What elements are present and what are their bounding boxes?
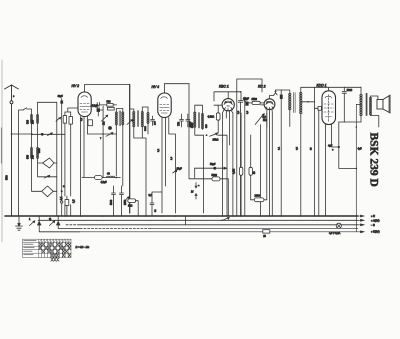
wire tap to C10 — [339, 167, 357, 169]
bus arrows — [358, 215, 364, 233]
wire R14 — [136, 201, 139, 216]
lamp LA1 — [336, 223, 341, 228]
resistor R14 — [128, 199, 136, 203]
table X marks — [39, 243, 71, 261]
svg-text:1M: 1M — [103, 122, 106, 125]
plug P3 — [38, 216, 41, 225]
wire TR1 secondary bottom — [300, 116, 302, 216]
wire R9 — [240, 113, 242, 216]
switch wiper S9 — [45, 175, 50, 178]
wire R1 down — [64, 112, 66, 196]
wire TR2 primary top — [360, 87, 362, 95]
resistor R5 — [107, 104, 113, 107]
switch S5 below bus — [30, 221, 35, 226]
svg-text:6: 6 — [13, 96, 15, 98]
interstage transformer TR1 primary — [289, 93, 291, 110]
svg-text:555: 555 — [206, 124, 208, 128]
svg-text:0,0: 0,0 — [238, 110, 240, 114]
svg-text:500: 500 — [5, 175, 9, 180]
switch S7 on bus — [223, 217, 230, 220]
svg-text:25: 25 — [263, 236, 266, 238]
jack M arrows — [195, 183, 197, 199]
svg-text:+ A(2V): + A(2V) — [371, 220, 380, 223]
node af — [116, 177, 118, 179]
wire V4 pins — [261, 105, 273, 216]
wire TR2 primary bottom — [360, 116, 362, 123]
bus A — [38, 219, 358, 221]
svg-text:500: 500 — [107, 101, 112, 104]
wire TR2 sec bottom — [371, 116, 379, 128]
svg-text:HV 4: HV 4 — [152, 85, 160, 89]
IF3 core — [199, 113, 200, 129]
wire V1 top — [85, 85, 130, 93]
capacitor C4 — [151, 116, 155, 126]
trimmer T3 — [173, 170, 177, 173]
wire diode verticals — [241, 97, 245, 216]
wire TR2 tap down — [355, 105, 357, 232]
TR1 secondary — [300, 92, 302, 114]
svg-text:5000: 5000 — [212, 174, 218, 177]
IF1 core — [119, 111, 120, 126]
terminal strip table — [23, 239, 71, 257]
wire V4 cathode to return — [266, 113, 268, 127]
wire C9 bottom row — [339, 121, 361, 123]
wire 50uF row — [195, 167, 227, 169]
svg-text:380: 380 — [26, 119, 29, 124]
svg-text:4,5µF: 4,5µF — [101, 181, 108, 184]
IF1 coil b — [122, 112, 124, 125]
resistor R17 on K line — [263, 230, 270, 233]
bus B — [80, 224, 358, 226]
capacitor C13 — [150, 197, 154, 216]
wire IF1 bottoms — [116, 127, 123, 186]
speaker LS — [377, 95, 390, 113]
wire V3 pins — [222, 110, 233, 216]
svg-text:1,0: 1,0 — [171, 156, 173, 160]
resistor R6 — [107, 107, 114, 110]
coil L1 — [30, 115, 32, 124]
svg-text:Ω = kΩ · b/n: Ω = kΩ · b/n — [76, 246, 90, 249]
capacitor C17 block — [245, 102, 248, 106]
wire R11 — [251, 199, 267, 201]
svg-text:BSK 239 D: BSK 239 D — [368, 133, 380, 187]
wire R10 — [250, 135, 252, 200]
band switch arrow W1 — [38, 158, 54, 168]
resistor R13 — [95, 176, 103, 180]
antenna A — [5, 85, 19, 216]
wire 5000 row — [189, 84, 228, 216]
scan edge artifact left — [1, 60, 3, 242]
svg-text:15µF: 15µF — [177, 169, 183, 171]
svg-text:a: a — [198, 185, 200, 187]
wire V5 pins — [319, 110, 339, 216]
svg-text:40µF: 40µF — [58, 96, 64, 98]
svg-text:0,5: 0,5 — [73, 199, 76, 203]
tube V2 internals — [161, 97, 168, 99]
grid cap V4 — [274, 93, 277, 95]
potentiometer P5 dot — [41, 133, 44, 136]
electrolytic C10 — [338, 146, 340, 148]
wire C10 vertical — [338, 122, 340, 168]
wire W diamonds right — [53, 163, 57, 191]
wire R2 down — [70, 112, 72, 196]
svg-text:4,5µF: 4,5µF — [243, 99, 250, 101]
svg-text:080: 080 — [26, 154, 29, 159]
wire loop2 top — [38, 102, 57, 216]
wire V2 pins — [162, 118, 175, 214]
wire R7 — [214, 105, 223, 133]
wire phase vertical — [314, 87, 316, 216]
ground GND1 — [16, 216, 23, 230]
TR2 secondary — [369, 97, 371, 115]
switch S2 — [106, 133, 113, 137]
wire IF1 b top — [116, 109, 123, 113]
svg-text:0,5: 0,5 — [297, 146, 299, 150]
svg-text:280: 280 — [32, 119, 35, 124]
wire IF2 bottoms — [134, 127, 146, 216]
svg-text:0,1: 0,1 — [279, 146, 281, 150]
svg-text:4µF: 4µF — [358, 148, 363, 151]
bus K dashed start — [80, 228, 150, 230]
capacitor C12 — [120, 186, 124, 216]
wire TR2 sec top — [371, 96, 378, 100]
tube V1 internals — [81, 96, 88, 98]
IF transformer IF1 coil a — [115, 112, 117, 125]
coil L2 — [37, 115, 39, 124]
resistor R1 — [63, 116, 66, 124]
coil L6 — [107, 176, 115, 177]
svg-text:5000: 5000 — [145, 125, 147, 131]
wire R3 bus — [65, 196, 71, 216]
TR1 core — [294, 93, 296, 113]
capacitor C3 box — [88, 120, 92, 126]
IF3 coil b — [201, 114, 203, 129]
bus junction dots — [18, 215, 332, 217]
wire jack stub — [194, 168, 196, 178]
svg-text:KBC 1: KBC 1 — [219, 85, 229, 89]
resistor R8 1500 — [252, 101, 260, 104]
svg-text:2000: 2000 — [255, 195, 261, 198]
capacitor C2 block — [97, 108, 100, 112]
svg-text:MΩ: MΩ — [263, 119, 267, 122]
wire V3 top frame — [214, 92, 241, 101]
trimmer T2 — [127, 119, 133, 124]
svg-text:500: 500 — [37, 148, 41, 153]
tube V3 KBC1 envelope — [222, 99, 234, 111]
potentiometer P2 — [255, 114, 264, 125]
wire IF2 tops — [130, 107, 148, 112]
svg-text:0,2: 0,2 — [158, 148, 160, 152]
wire C2 — [98, 106, 103, 178]
wire R5 right — [90, 103, 117, 107]
svg-text:0,0: 0,0 — [247, 110, 249, 114]
table row labels — [23, 240, 36, 255]
wire V1 pins — [81, 117, 88, 217]
wire TR1 primary bottom — [289, 111, 291, 127]
wire IF3 loop — [195, 105, 204, 213]
svg-text:50µF: 50µF — [210, 163, 216, 166]
resistor R11 2000 — [254, 198, 264, 202]
tube V4 internals — [266, 101, 274, 110]
IF transformer IF3 coil a — [194, 112, 196, 127]
switch S8 on line — [48, 133, 53, 136]
plug P4 — [57, 216, 60, 225]
resistor R2 — [69, 117, 72, 125]
svg-text:1: 1 — [29, 218, 31, 221]
resistor R10 — [249, 167, 252, 175]
resistor R12 5000 — [212, 177, 220, 181]
terminal circle — [61, 201, 63, 203]
IF2 coil b — [141, 112, 143, 127]
svg-text:15kΩ: 15kΩ — [213, 139, 219, 142]
svg-text:+: + — [332, 149, 334, 152]
capacitor C6 5000 — [186, 114, 190, 127]
tube V1 HV2 envelope — [78, 92, 91, 117]
svg-text:50: 50 — [254, 171, 256, 174]
TR2 core — [366, 93, 368, 116]
svg-text:750: 750 — [178, 121, 181, 126]
svg-text:HV 2: HV 2 — [72, 84, 80, 88]
bus K — [80, 228, 358, 232]
table header hatch — [39, 240, 70, 243]
tube V3 internals — [224, 101, 233, 111]
svg-text:4,5 V 0,2A: 4,5 V 0,2A — [329, 232, 341, 235]
coil L4 lower — [37, 148, 39, 159]
wire mid junction — [88, 133, 117, 135]
wire TR1 secondary top — [301, 87, 315, 92]
wire TR2 tap — [356, 104, 361, 106]
svg-text:0,1: 0,1 — [60, 196, 63, 200]
svg-text:40: 40 — [107, 173, 110, 176]
svg-text:5000: 5000 — [347, 89, 353, 92]
svg-text:M: M — [191, 190, 194, 194]
wire C14 — [61, 99, 63, 217]
coil L3 lower — [30, 148, 32, 159]
IF transformer IF2 coil a — [133, 112, 135, 127]
wire TR1 primary top — [281, 90, 290, 94]
switch S1a top — [23, 108, 27, 110]
wire P2 — [260, 125, 262, 217]
tube V5 internals — [325, 96, 332, 98]
wire af row left — [82, 177, 120, 179]
capacitor C9 — [342, 87, 346, 122]
svg-text:0,1: 0,1 — [81, 117, 83, 121]
potentiometer P1 — [108, 126, 112, 130]
electrolytic C15 dot — [213, 167, 216, 170]
switch S4 — [124, 197, 130, 203]
svg-text:KDD 1: KDD 1 — [317, 84, 327, 88]
svg-text:30: 30 — [155, 209, 157, 212]
switch S3 — [210, 133, 218, 136]
grid feed line — [315, 107, 322, 109]
IF2 core — [137, 111, 138, 127]
capacitor C14 block — [60, 101, 63, 104]
node L bottom junction — [32, 133, 65, 135]
trimmer T1 — [102, 115, 108, 121]
svg-text:1kΩ: 1kΩ — [128, 205, 133, 208]
wire below bus 2 — [58, 225, 80, 229]
capacitor C8 dark — [280, 95, 283, 99]
coil L5 — [147, 113, 149, 124]
svg-text:5000: 5000 — [111, 199, 113, 205]
wire V5 top — [315, 87, 361, 92]
svg-text:240: 240 — [32, 154, 35, 159]
wire jack return — [185, 216, 187, 225]
svg-text:7: 7 — [100, 138, 102, 140]
svg-text:+ H: + H — [371, 215, 375, 218]
wire diode row — [240, 91, 242, 93]
scan edge artifact dark — [1, 128, 3, 163]
tube V5 KDD1 envelope — [322, 91, 336, 125]
grid lead thick — [129, 85, 131, 214]
node antenna tap — [12, 133, 33, 135]
coil L1 loop — [19, 109, 32, 216]
capacitor C5 750 — [180, 114, 184, 127]
wire S3 right — [218, 135, 227, 216]
bus main chassis — [5, 215, 358, 217]
trimmer T4 — [56, 117, 61, 121]
wire C8 — [280, 90, 282, 216]
output transformer TR2 primary — [360, 94, 362, 116]
resistor R3 — [65, 200, 69, 206]
svg-text:20: 20 — [311, 147, 313, 150]
capacitor C1 4,5uF — [95, 103, 100, 111]
svg-text:0,1M: 0,1M — [234, 169, 236, 174]
resistor R9 — [239, 167, 242, 175]
resistor R16 grid — [318, 107, 321, 111]
wire R8 — [244, 101, 264, 103]
node C14 dot — [61, 190, 63, 192]
wire grid V4 — [270, 90, 282, 99]
svg-text:4µF: 4µF — [328, 145, 333, 148]
svg-text:4,5kΩ: 4,5kΩ — [208, 116, 215, 119]
wire V3 upper loop — [237, 79, 262, 216]
wire V2 top — [165, 84, 190, 93]
svg-text:KC 2: KC 2 — [258, 85, 266, 89]
switch row wire — [38, 163, 57, 177]
wire top R1R2 — [65, 108, 78, 112]
tube V4 KC2 envelope — [264, 99, 275, 110]
svg-text:1500: 1500 — [252, 98, 258, 101]
band switch arrow W2 — [32, 160, 54, 197]
wire TR1 tap — [301, 101, 315, 103]
capacitor C7 — [238, 101, 242, 110]
wire below bus — [39, 225, 80, 232]
bus B dashed start — [66, 224, 80, 226]
tube V2 HV4 envelope — [158, 93, 171, 118]
wire C13 top — [152, 192, 162, 197]
resistor R7 — [216, 113, 220, 120]
capacitor C11 — [112, 186, 116, 216]
svg-text:+ K(2V): + K(2V) — [371, 231, 380, 234]
switch S6 below bus — [50, 221, 55, 226]
svg-text:− B: − B — [371, 224, 375, 227]
svg-text:5000: 5000 — [191, 122, 194, 128]
